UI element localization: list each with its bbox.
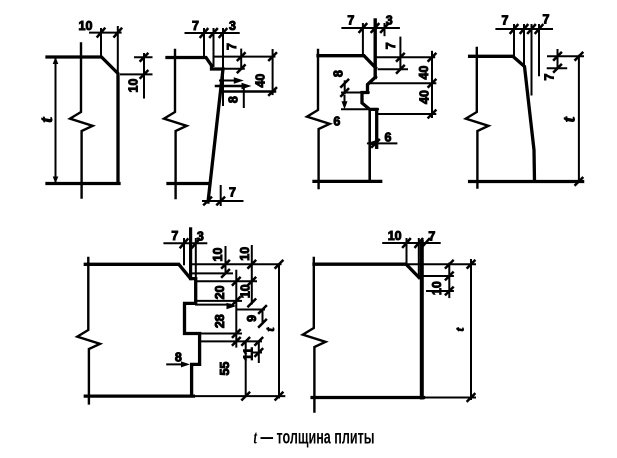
fig6 right dimension 10: [419, 275, 453, 277]
fig2 dimension 40: [272, 50, 274, 94]
fig5 dimension t right: [278, 264, 280, 397]
fig3 lower edge line: [368, 109, 371, 181]
svg-text:7: 7: [384, 42, 398, 49]
fig2 dimension 8 arrows: [220, 80, 238, 82]
svg-text:7: 7: [543, 73, 557, 80]
fig5 arrow at step: [227, 303, 237, 309]
fig5 dimension 11: [258, 341, 260, 362]
svg-text:10: 10: [430, 281, 444, 295]
fig6 right dimension t: [470, 260, 472, 399]
svg-text:7: 7: [192, 19, 199, 33]
fig2 dimension 7 right: [240, 50, 242, 69]
fig6 top dimension 10 and 7: [383, 242, 440, 244]
svg-text:20: 20: [213, 285, 227, 299]
fig4 top dimension 7 7: [496, 28, 552, 30]
fig2 right extension lines: [214, 56, 274, 58]
fig5 top edge extension: [190, 263, 281, 265]
fig5 bottom edge extension: [193, 395, 284, 397]
figure 5: stepped slab edge, bottom-left: [77, 229, 284, 404]
fig5 top dimension 7 and 3: [164, 242, 206, 244]
svg-text:7: 7: [428, 230, 435, 244]
svg-text:40: 40: [254, 74, 268, 88]
fig5 tongue tip thick line: [189, 229, 192, 279]
fig3 dimension 6 upper with down arrow: [342, 108, 378, 110]
figure 4: slab edge with long slant, top-right: [466, 13, 583, 188]
fig2 slab outline: [167, 58, 223, 203]
fig3 slab outline: [314, 56, 381, 182]
figure 2: slab edge with slanted face, top row second: [164, 19, 276, 205]
fig1 left dimension line t: [55, 57, 57, 184]
fig1 right dimension 10: [135, 56, 152, 58]
fig3 break line with zigzag: [307, 50, 330, 188]
svg-text:10: 10: [238, 247, 252, 261]
fig1 break line with zigzag: [70, 44, 93, 198]
figure 3: slab edge with tongue and groove, top row third: [307, 14, 436, 189]
svg-text:40: 40: [417, 66, 431, 80]
fig2 bottom dimension 7: [203, 200, 243, 202]
svg-text:10: 10: [79, 19, 93, 33]
svg-text:t — толщина плиты: t — толщина плиты: [254, 426, 375, 448]
svg-text:10: 10: [211, 248, 225, 262]
svg-text:3: 3: [386, 14, 393, 28]
fig3 dimension 7 right: [399, 38, 401, 70]
fig5 dimension 10 col1: [225, 247, 227, 273]
svg-text:28: 28: [213, 314, 227, 328]
fig3 top dimension 7 and 3: [342, 27, 399, 29]
svg-text:7: 7: [502, 14, 509, 28]
fig5 right extension lines: [192, 272, 232, 274]
fig5 dimension 10 col2: [251, 246, 253, 303]
svg-text:7: 7: [347, 14, 354, 28]
fig5 slab outline: [85, 264, 199, 396]
fig3 right extension lines: [376, 56, 434, 58]
fig6 main vertical edge thick: [420, 242, 424, 398]
fig1 top dimension 10: [90, 32, 121, 34]
svg-text:7: 7: [229, 186, 236, 200]
fig2 break line with zigzag: [164, 50, 187, 198]
fig6 break line with zigzag: [303, 258, 326, 412]
svg-text:6: 6: [385, 131, 392, 145]
fig4 dimension 7 small right: [557, 50, 559, 68]
fig2 top dimension 7 and 3: [186, 32, 239, 34]
fig5 dimension 9: [262, 310, 264, 324]
svg-text:8: 8: [175, 351, 182, 365]
svg-text:8: 8: [227, 96, 241, 103]
fig4 right extension lines: [548, 55, 583, 57]
svg-text:7: 7: [171, 229, 178, 243]
fig6 top edge extension: [406, 263, 475, 265]
fig5 dimension 8 with arrow: [167, 363, 186, 365]
fig4 slab outline: [470, 56, 583, 181]
fig5 break line with zigzag: [77, 258, 100, 403]
svg-text:55: 55: [218, 362, 232, 376]
fig6 bottom edge extension: [424, 397, 476, 399]
svg-text:10: 10: [388, 229, 402, 243]
fig4 right dimension t: [578, 56, 580, 182]
svg-text:7: 7: [225, 43, 239, 50]
fig3 tongue tip thick line: [374, 20, 377, 78]
figure 1: slab edge with chamfer, top-left: [36, 19, 152, 198]
svg-text:6: 6: [333, 114, 340, 128]
fig5 dimension col 20 28: [235, 271, 237, 347]
fig1 slab outline: [47, 57, 119, 184]
fig3 dimension 40 40: [431, 52, 433, 117]
svg-text:3: 3: [229, 19, 236, 33]
fig5 dimension 55: [245, 341, 247, 396]
fig6 slab outline: [312, 264, 423, 397]
figure 6: slab edge with vertical face, bottom-right: [303, 229, 475, 412]
svg-text:7: 7: [543, 13, 550, 27]
svg-text:3: 3: [197, 230, 204, 244]
svg-text:40: 40: [418, 90, 432, 104]
svg-text:11: 11: [242, 347, 256, 360]
svg-text:9: 9: [245, 315, 259, 322]
svg-text:10: 10: [127, 79, 141, 93]
svg-text:t: t: [262, 327, 277, 331]
fig3 dimension 6 lower with left arrow: [368, 142, 396, 144]
fig3 dimension 8 left: [342, 92, 369, 94]
svg-text:10: 10: [239, 284, 253, 298]
fig4 break line with zigzag: [466, 48, 489, 188]
svg-text:8: 8: [332, 70, 346, 77]
